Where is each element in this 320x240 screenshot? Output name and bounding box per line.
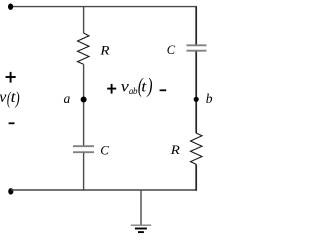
- label + (middle, vab): [107, 84, 116, 94]
- svg-text:C: C: [167, 43, 176, 57]
- node b dot: [194, 97, 199, 102]
- svg-text:v: v: [0, 89, 7, 106]
- capacitor C1 (middle) plates: [73, 145, 94, 147]
- svg-text:b: b: [206, 91, 213, 106]
- wire middle branch upper lead: [83, 7, 85, 34]
- svg-text:R: R: [170, 143, 181, 157]
- wire middle branch lower lead: [83, 153, 85, 190]
- svg-text:R: R: [99, 43, 110, 57]
- wire right branch lower lead: [195, 164, 197, 191]
- ground symbol: [131, 224, 151, 226]
- svg-text:): ): [147, 74, 153, 98]
- capacitor C2 (right) plates: [187, 44, 207, 46]
- ground stub wire: [140, 190, 142, 225]
- resistor R2 (right): [191, 133, 203, 164]
- svg-text:ab: ab: [129, 86, 138, 96]
- svg-text:): ): [15, 89, 20, 109]
- label - (middle, vab): [160, 89, 167, 91]
- wire middle branch between resistor and capacitor: [83, 64, 85, 145]
- wire bottom horizontal: [11, 189, 197, 191]
- wire right branch upper lead: [195, 7, 197, 45]
- label - (left port): [9, 122, 15, 124]
- svg-text:C: C: [100, 143, 109, 158]
- node a dot: [81, 97, 87, 103]
- label + (left port): [6, 72, 16, 83]
- terminal dot top-left: [8, 3, 13, 9]
- svg-text:t: t: [141, 77, 147, 95]
- wire right branch middle lead: [195, 52, 197, 134]
- resistor R1 (top middle): [78, 33, 90, 64]
- svg-text:a: a: [64, 91, 71, 106]
- terminal dot bottom-left: [8, 188, 13, 194]
- wire top horizontal: [11, 6, 197, 8]
